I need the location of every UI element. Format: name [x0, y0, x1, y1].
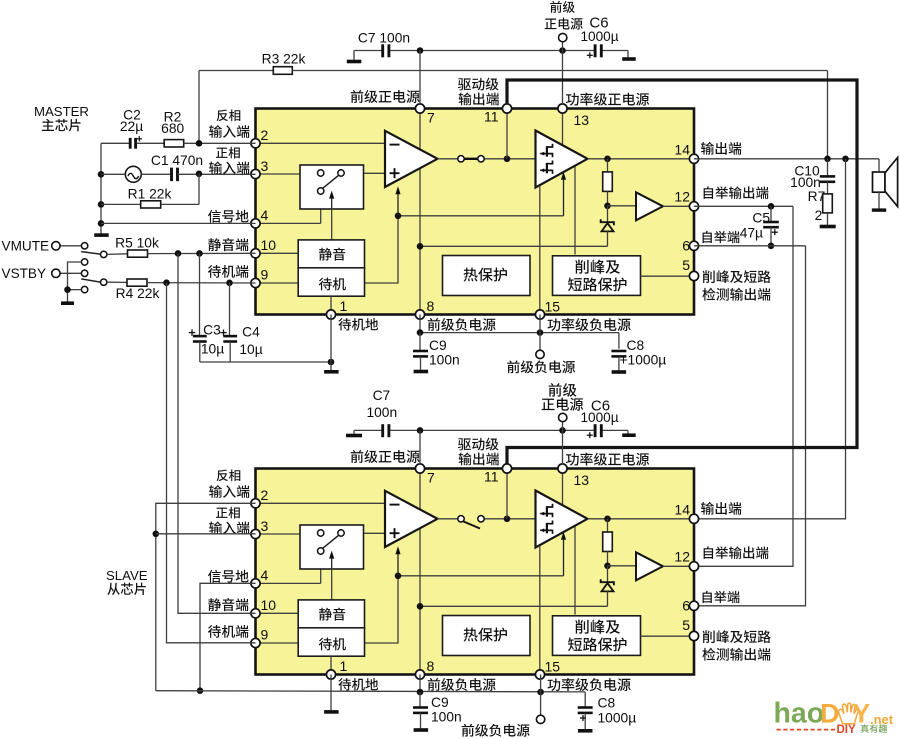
- node rail tap U1: [417, 243, 424, 250]
- svg-text:C7 100n: C7 100n: [358, 31, 410, 46]
- node signal gnd tap: [98, 220, 105, 227]
- wire pin6 row: [694, 245, 806, 247]
- node C5 top: [768, 203, 775, 210]
- signal source V1: [101, 173, 125, 175]
- svg-text:10: 10: [261, 237, 277, 253]
- wire signal-ground pin4 U2: [256, 582, 321, 584]
- wire link pin6 master-slave: [694, 246, 806, 606]
- label mute-box U2: [319, 608, 345, 621]
- svg-text:14: 14: [674, 142, 690, 158]
- wire power-stage to pin15 U2: [539, 546, 541, 675]
- label preamp V+: [550, 1, 575, 13]
- wire R3 to output: [827, 71, 829, 160]
- wire slave input link: [156, 503, 256, 690]
- capacitor C6 slave: [594, 424, 597, 437]
- label pin13 U1: [566, 93, 649, 106]
- pin 15 U1: [535, 310, 544, 319]
- pin 1 U1: [326, 310, 335, 319]
- zener diode U2: [607, 566, 609, 582]
- pin 3 U1: [251, 169, 260, 178]
- capacitor C5: [770, 206, 772, 221]
- op-amp U2-A: [385, 491, 438, 547]
- svg-text:R1 22k: R1 22k: [128, 187, 172, 202]
- svg-text:.net: .net: [870, 712, 894, 727]
- svg-text:13: 13: [574, 112, 590, 128]
- svg-text:MASTER: MASTER: [34, 104, 89, 119]
- label pin15 U2: [547, 678, 630, 691]
- bias arrow into op-amp U2: [397, 550, 399, 576]
- svg-text:1: 1: [340, 658, 348, 674]
- ground for C6: [627, 51, 629, 58]
- svg-text:3: 3: [261, 518, 269, 534]
- capacitor C9: [419, 333, 421, 351]
- label pin12 U1: [704, 186, 769, 199]
- internal supply rail pin7-pin8 U2: [419, 469, 421, 675]
- terminal VSTBY: [59, 272, 81, 274]
- wire slave bottom rail: [156, 691, 585, 692]
- wire zener to supply rail U2: [420, 605, 608, 607]
- pin 13 U2: [558, 464, 567, 473]
- svg-text:5: 5: [682, 257, 690, 273]
- closed link switch U1: [458, 156, 464, 162]
- node R3 tap: [196, 140, 203, 147]
- label pin11 U2: [458, 438, 499, 451]
- node pin13 riser junction: [559, 47, 566, 54]
- node bias junction U1: [395, 213, 402, 220]
- mute switch box U1: [300, 165, 364, 209]
- wire input rail: [100, 143, 102, 233]
- node C9 tap: [417, 329, 424, 336]
- label pin14 U1: [701, 142, 741, 155]
- svg-text:15: 15: [545, 298, 561, 314]
- pin 10 U2: [251, 609, 260, 618]
- thick driver net: [507, 80, 857, 464]
- node bias junction U2: [395, 573, 402, 580]
- pin 7 U1: [415, 104, 424, 113]
- pin 14 U1: [689, 154, 698, 163]
- ground for C7 slave: [353, 430, 355, 434]
- pin 5 U2: [689, 631, 698, 640]
- label pin15 U1: [547, 318, 630, 331]
- pin 8 U2: [415, 670, 424, 679]
- wire pin13 riser top: [562, 42, 564, 105]
- standby box U1: [298, 268, 364, 296]
- terminal VMUTE: [59, 245, 81, 247]
- capacitor C10: [827, 159, 829, 176]
- node slave link tap: [842, 156, 849, 163]
- switch S1: [81, 243, 87, 249]
- svg-text:8: 8: [427, 298, 435, 314]
- node bootstrap junction U1: [604, 203, 611, 210]
- wire slave pin8 drop: [419, 675, 421, 693]
- label pin2 U2: [217, 469, 241, 481]
- node C4 tap: [226, 280, 233, 287]
- node C10 tap: [824, 156, 831, 163]
- node driver input junction U2: [504, 516, 511, 523]
- svg-text:1000µ: 1000µ: [598, 711, 637, 726]
- terminal preamp V+ slave: [559, 413, 567, 421]
- pin 12 U1: [689, 202, 698, 211]
- svg-text:2: 2: [261, 487, 269, 503]
- label pin6 U1: [703, 231, 740, 243]
- svg-text:2: 2: [261, 127, 269, 143]
- mute box U2: [298, 600, 364, 628]
- node output junction U2: [604, 516, 611, 523]
- resistor R4: [107, 281, 127, 283]
- label pin3 U2: [216, 507, 240, 519]
- svg-text:C8: C8: [598, 696, 616, 711]
- label pin10 U2: [208, 598, 248, 611]
- wire zener to supply rail U1: [420, 245, 608, 247]
- wire signal ground: [101, 222, 256, 224]
- pin 2 U2: [251, 499, 260, 508]
- svg-text:6: 6: [682, 597, 690, 613]
- label thermal U1: [464, 268, 507, 282]
- label pin7 U2: [351, 450, 420, 463]
- terminal preamp V+: [559, 33, 567, 41]
- label pin8 U2: [428, 678, 496, 691]
- svg-text:11: 11: [484, 109, 499, 125]
- internal resistor U2: [607, 519, 609, 533]
- label pin13 U2: [566, 453, 649, 466]
- svg-text:3: 3: [261, 158, 269, 174]
- wire pin13 riser U1: [562, 109, 564, 161]
- capacitor C1: [141, 173, 171, 175]
- svg-text:100n: 100n: [790, 175, 821, 190]
- wire power-stage to pin15 U1: [539, 186, 541, 315]
- node bootstrap junction U2: [604, 563, 611, 570]
- pin 13 U1: [558, 104, 567, 113]
- node pin13 riser junction slave: [559, 427, 566, 434]
- open link switch U2: [458, 516, 464, 522]
- pin 1 U2: [326, 670, 335, 679]
- node slave pin15 tap: [537, 689, 544, 696]
- wire gnd rail: [200, 361, 331, 363]
- svg-text:1000µ: 1000µ: [580, 29, 618, 44]
- wire slave pin1 ground: [330, 675, 332, 711]
- wire pin1 ground: [330, 315, 332, 371]
- svg-text:C3: C3: [203, 323, 221, 338]
- capacitor C6: [594, 44, 597, 57]
- wire output: [694, 158, 879, 160]
- svg-text:C9: C9: [431, 695, 449, 710]
- pin 12 U2: [689, 562, 698, 571]
- label pin3 U1: [216, 147, 240, 159]
- buffer amp U2-C: [608, 565, 637, 567]
- node C3 tap: [196, 250, 203, 257]
- wire pin11 riser U2: [506, 469, 508, 519]
- pin 9 U1: [251, 278, 260, 287]
- wire link pin12 master-slave: [694, 206, 793, 566]
- resistor R1: [101, 203, 141, 205]
- label pin9 U1: [208, 265, 248, 278]
- wire mute riser: [178, 253, 256, 613]
- capacitor C3: [199, 253, 201, 335]
- capacitor C4: [229, 283, 231, 336]
- svg-text:R3 22k: R3 22k: [262, 52, 306, 67]
- svg-text:2: 2: [815, 208, 823, 223]
- node C5 bottom: [768, 243, 775, 250]
- svg-text:9: 9: [261, 627, 269, 643]
- node source tap: [98, 171, 105, 178]
- wire pin7 riser: [419, 51, 421, 105]
- svg-text:1000µ: 1000µ: [580, 410, 618, 425]
- svg-text:6: 6: [682, 237, 690, 253]
- wire standby pin9 U2: [256, 642, 299, 644]
- svg-text:C1 470n: C1 470n: [151, 153, 203, 168]
- wire pin7 riser slave: [419, 430, 421, 464]
- wire non-inverting input pin3 U2: [256, 533, 318, 535]
- label thermal U2: [464, 628, 507, 642]
- svg-text:5: 5: [682, 617, 690, 633]
- wire slave pin15 to terminal: [540, 675, 542, 716]
- wire slave pin4 drop: [200, 583, 256, 690]
- thermal protection box U2: [443, 616, 531, 656]
- wire pin15 to terminal: [539, 315, 541, 351]
- wire standby riser: [167, 283, 256, 643]
- node R1 top tap: [196, 171, 203, 178]
- clip protection box U1: [553, 256, 641, 296]
- node slave pin4 rail tap: [197, 687, 204, 694]
- mute switch arrow U1: [331, 195, 333, 209]
- svg-text:22µ: 22µ: [120, 119, 143, 134]
- pin 3 U2: [251, 529, 260, 538]
- label pin14 U2: [701, 502, 741, 515]
- IC chip body U2: [256, 469, 695, 675]
- svg-text:7: 7: [427, 470, 435, 486]
- resistor R3: [198, 71, 200, 144]
- capacitor C8: [611, 350, 626, 353]
- wire signal-ground pin4 U1: [256, 222, 321, 224]
- label preamp V+ slave: [549, 383, 577, 397]
- pin 11 U1: [502, 104, 511, 113]
- svg-text:11: 11: [484, 469, 499, 485]
- bias arrow into power amp U1: [563, 176, 565, 216]
- internal supply rail pin7-pin8 U1: [419, 109, 421, 315]
- svg-text:7: 7: [427, 110, 435, 126]
- pin 4 U1: [251, 219, 260, 228]
- svg-text:C7: C7: [373, 388, 391, 403]
- node slave C9 tap: [417, 689, 424, 696]
- bias arrow into op-amp U1: [397, 190, 399, 216]
- svg-text:10µ: 10µ: [239, 342, 262, 357]
- node S2 gnd: [64, 286, 71, 293]
- label pin12 U2: [704, 546, 769, 559]
- mute switch contacts U2: [318, 530, 324, 536]
- label pin5 U1: [703, 270, 771, 283]
- svg-text:47µ: 47µ: [740, 225, 763, 240]
- label pin1 U2: [338, 678, 378, 691]
- standby box U2: [298, 628, 364, 656]
- capacitor C2: [101, 142, 129, 144]
- svg-text:C5: C5: [752, 210, 770, 225]
- label pin7 U1: [351, 90, 420, 103]
- thermal protection box U1: [443, 256, 531, 296]
- IC chip body U1: [256, 109, 695, 315]
- svg-text:4: 4: [261, 567, 269, 583]
- pin 10 U1: [251, 249, 260, 258]
- pin 5 U1: [689, 271, 698, 280]
- label standby-box U1: [319, 278, 346, 291]
- label clip U1: [575, 260, 620, 274]
- pin 6 U2: [689, 601, 698, 610]
- pin 6 U1: [689, 241, 698, 250]
- wire inverting input pin2 U2: [256, 502, 386, 504]
- wire mute pin10 U1: [256, 252, 299, 254]
- resistor R2: [164, 140, 184, 147]
- wire pin11 riser U1: [506, 109, 508, 159]
- svg-text:100n: 100n: [366, 405, 397, 420]
- wire slave pin3 link: [156, 533, 256, 535]
- svg-text:hao: hao: [774, 698, 825, 730]
- zener diode U1: [607, 206, 609, 222]
- svg-text:4: 4: [261, 207, 269, 223]
- node slave in2-3: [153, 531, 160, 538]
- node pin7 riser junction: [417, 47, 424, 54]
- pin 14 U2: [689, 514, 698, 523]
- capacitor C7: [381, 44, 384, 57]
- resistor R7: [827, 182, 829, 194]
- capacitor C9 slave: [419, 692, 421, 707]
- mute switch contacts U1: [318, 170, 324, 176]
- wire standby pin9 U1: [256, 282, 299, 284]
- svg-text:100n: 100n: [431, 710, 462, 725]
- label pin8 U1: [428, 318, 496, 331]
- wire pin13 riser slave: [562, 421, 564, 464]
- label pin9 U2: [208, 625, 248, 638]
- wire top supply row: [354, 50, 382, 52]
- terminal preamp V- slave: [536, 715, 544, 723]
- label pin4 U2: [208, 570, 249, 583]
- node stby riser tap: [163, 279, 170, 286]
- wire pin13 riser U2: [562, 469, 564, 521]
- node pin15 riser: [537, 329, 544, 336]
- pin 7 U2: [415, 464, 424, 473]
- svg-text:100n: 100n: [429, 353, 460, 368]
- terminal preamp V-: [536, 350, 544, 358]
- internal bias rail U2: [364, 576, 399, 643]
- mute switch box U2: [300, 525, 364, 569]
- svg-text:10: 10: [261, 597, 277, 613]
- svg-text:R7: R7: [808, 189, 826, 204]
- capacitor C8 slave: [584, 692, 586, 707]
- pin 11 U2: [502, 464, 511, 473]
- svg-text:+1000µ: +1000µ: [620, 353, 667, 368]
- label standby-box U2: [319, 638, 346, 651]
- node rail tap U2: [417, 603, 424, 610]
- svg-text:C8: C8: [627, 338, 645, 353]
- label pin10 U1: [208, 238, 248, 251]
- node driver input junction U1: [504, 156, 511, 163]
- pin 15 U2: [535, 670, 544, 679]
- wire slave top supply row: [354, 429, 382, 431]
- label pin11 U1: [458, 78, 499, 91]
- svg-text:R5 10k: R5 10k: [115, 236, 159, 251]
- pin 2 U1: [251, 139, 260, 148]
- label mute-box U1: [319, 248, 345, 261]
- resistor R5: [107, 253, 127, 256]
- svg-text:8: 8: [427, 658, 435, 674]
- pin 4 U2: [251, 579, 260, 588]
- svg-text:14: 14: [674, 502, 690, 518]
- label clip U2: [575, 620, 620, 634]
- wire non-inverting input pin3 U1: [256, 173, 318, 175]
- svg-text:DIY: DIY: [837, 724, 857, 736]
- buffer amp U1-C: [608, 205, 637, 207]
- wire op-amp output U2: [438, 518, 458, 520]
- op-amp U1-A: [385, 131, 438, 187]
- node pin7 riser junction slave: [417, 427, 424, 434]
- svg-text:1: 1: [340, 298, 348, 314]
- svg-text:9: 9: [261, 267, 269, 283]
- label pin6 U2: [703, 591, 740, 603]
- svg-text:680: 680: [161, 121, 184, 136]
- wire power output U2: [588, 518, 695, 520]
- svg-text:SLAVE: SLAVE: [106, 568, 148, 583]
- pin 8 U1: [415, 310, 424, 319]
- svg-text:13: 13: [574, 472, 590, 488]
- speaker LS1: [873, 172, 886, 192]
- power amplifier U2-B: [536, 491, 588, 548]
- label pin4 U1: [208, 210, 249, 223]
- svg-text:12: 12: [674, 549, 690, 565]
- clip protection box U2: [553, 616, 641, 656]
- svg-text:R4 22k: R4 22k: [116, 286, 160, 301]
- power amplifier U1-B: [536, 131, 588, 188]
- node pin1 gnd: [328, 359, 335, 366]
- pin 9 U2: [251, 638, 260, 647]
- capacitor C7 slave: [381, 424, 384, 437]
- svg-text:10µ: 10µ: [201, 342, 224, 357]
- wire link output master-slave: [694, 159, 846, 519]
- wire op-amp output U1: [438, 158, 458, 160]
- wire power output U1: [588, 158, 695, 160]
- svg-text:VSTBY: VSTBY: [2, 266, 47, 281]
- label pin2 U1: [217, 109, 241, 121]
- label pin1 U1: [338, 318, 378, 331]
- internal resistor U1: [607, 159, 609, 173]
- svg-text:12: 12: [674, 189, 690, 205]
- svg-text:C4: C4: [242, 325, 260, 340]
- switch S2: [81, 259, 87, 265]
- wire pin12 row: [694, 205, 793, 207]
- wire inverting input pin2 U1: [256, 142, 386, 144]
- svg-text:C9: C9: [429, 338, 447, 353]
- label pin5 U2: [703, 630, 771, 643]
- node mute riser tap: [175, 250, 182, 257]
- wire neg rail: [419, 315, 421, 333]
- mute switch arrow U2: [331, 555, 333, 569]
- wire mute pin10 U2: [256, 612, 299, 614]
- ground for C7: [353, 51, 355, 61]
- internal bias rail U1: [364, 216, 399, 283]
- bias arrow into power amp U2: [563, 536, 565, 576]
- svg-text:VMUTE: VMUTE: [2, 239, 50, 254]
- ground for C6 slave: [627, 430, 629, 433]
- node output junction U1: [604, 156, 611, 163]
- node R1 left tap: [98, 201, 105, 208]
- svg-text:15: 15: [545, 658, 561, 674]
- mute box U1: [298, 240, 364, 268]
